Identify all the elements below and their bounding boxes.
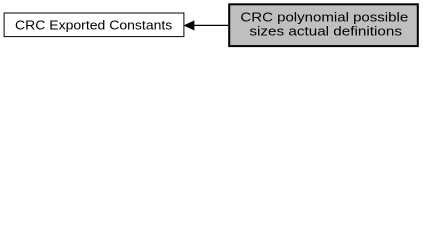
arrowhead <box>185 21 194 30</box>
node: CRC Exported Constants <box>4 13 184 37</box>
svg-text:CRC polynomial possible: CRC polynomial possible <box>240 9 408 24</box>
svg-text:CRC Exported Constants: CRC Exported Constants <box>15 17 173 32</box>
background <box>0 0 423 51</box>
svg-text:sizes actual definitions: sizes actual definitions <box>249 23 402 38</box>
node (current): CRC polynomial possible sizes actual definitions <box>229 4 418 46</box>
wire <box>194 24 229 26</box>
edge: dependency arrow from current node to CRC Exported Constants <box>185 21 229 30</box>
